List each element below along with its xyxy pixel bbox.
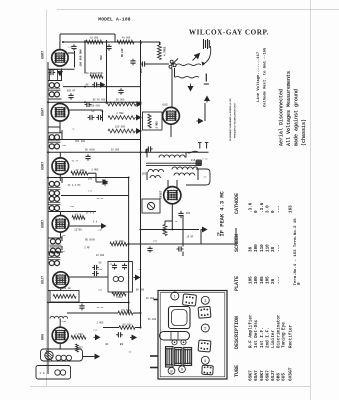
table cathode value col2 [254, 210, 259, 213]
svg-text:100: 100 [70, 205, 75, 208]
capacitor top rail bypass 2 [106, 44, 111, 51]
chassis IF can 10 [184, 348, 192, 366]
chassis IF can 9 [175, 348, 182, 366]
svg-text:PU 500: PU 500 [122, 323, 132, 326]
chassis box outer [158, 291, 227, 380]
svg-text:10 000: 10 000 [96, 254, 105, 257]
svg-text:4700: 4700 [116, 296, 123, 299]
tube V3 6SK7 1st IF [52, 158, 69, 175]
transformer T6 core [146, 163, 201, 165]
svg-text:250: 250 [98, 228, 103, 231]
resistor R6 22000 [71, 171, 88, 175]
svg-text:0: 0 [297, 282, 302, 285]
table plate value col1 [249, 276, 254, 284]
box 1meg [143, 112, 163, 130]
tube V2 6SA7 1st det-osc [51, 104, 69, 122]
label v 1megb [97, 321, 105, 324]
label v bg6000 [85, 148, 95, 151]
label B2 [79, 347, 83, 350]
wire v4 coil frame [48, 236, 62, 241]
svg-text:4.7MEG: 4.7MEG [163, 46, 166, 56]
chassis circle 3 [201, 296, 209, 304]
label 6SJ7 V5 [42, 276, 46, 284]
label pu500 [122, 323, 132, 326]
table screen value col4 [265, 244, 270, 252]
svg-text:00 000: 00 000 [136, 288, 145, 291]
capacitor C2 [92, 82, 99, 87]
svg-text:Cathode Rect. to Gnd.--165: Cathode Rect. to Gnd.--165 [263, 47, 268, 107]
resistor R2 4.7meg vertical [158, 45, 162, 60]
svg-text:MODEL A-108: MODEL A-108 [98, 17, 131, 23]
wire V1 grid row [48, 68, 75, 70]
tube V5 6SJ7 limiter [53, 272, 69, 288]
node arrow down [188, 84, 192, 91]
coil input v6 [50, 316, 68, 318]
svg-text:IF 4.3 MC: IF 4.3 MC [68, 184, 81, 187]
capacitor C18 [177, 246, 184, 251]
node dipole arrowhead 1 [202, 62, 206, 67]
label 6H6 V6 [42, 334, 46, 340]
wire y195 [61, 195, 129, 197]
wire y313 [67, 312, 141, 314]
IF transformer T3a [48, 181, 60, 195]
note IF peak [220, 190, 226, 236]
svg-text:---: --- [277, 244, 282, 252]
svg-text:100: 100 [88, 178, 93, 181]
svg-text:WILCOX-GAY CORP.: WILCOX-GAY CORP. [189, 29, 269, 37]
label if 43a [68, 184, 81, 187]
label v 50 [129, 351, 132, 354]
label 005c [142, 173, 147, 176]
wire v7 right up [196, 103, 205, 121]
chassis shaft 2 [150, 355, 158, 357]
svg-text:105: 105 [249, 276, 254, 284]
label 4700 [116, 296, 123, 299]
wire y229 left [141, 229, 173, 231]
capacitor C13 in box [122, 263, 127, 269]
table plate value col6 [277, 276, 282, 284]
resistor R15 1meg vertical [148, 114, 151, 128]
label 46 [85, 84, 89, 87]
capacitor extra y86 a [118, 88, 123, 95]
transformer T6 primary [159, 155, 185, 158]
table header SCREEN [234, 234, 240, 252]
capacitor C10 [92, 265, 99, 270]
wire rail drop [159, 42, 161, 45]
table description R-F Amplifier [249, 314, 254, 348]
label dn cap [121, 48, 124, 57]
transformer T6 sec B [172, 167, 198, 176]
wire T1 frame [48, 68, 62, 99]
label v rg40000 [93, 99, 106, 102]
label 6SK7 V4 [42, 220, 46, 228]
svg-text:B3: B3 [120, 343, 124, 346]
svg-text:RG 40 000: RG 40 000 [93, 99, 106, 102]
page bottom edge [30, 386, 310, 388]
label 6X5 V8 [160, 190, 163, 199]
label 22700 [74, 229, 82, 232]
wire T6 leads [147, 149, 198, 180]
chassis socket V1 [182, 294, 196, 306]
svg-text:47 0: 47 0 [75, 214, 82, 217]
resistor box R10 [50, 291, 79, 303]
svg-text:30 000: 30 000 [111, 148, 120, 151]
chassis dial pill [160, 332, 190, 341]
svg-text:Line Voltage-------117: Line Voltage-------117 [256, 51, 261, 102]
chassis shaft 1 [154, 299, 159, 301]
osc coil T2 [48, 135, 60, 149]
wire dipole drop [172, 68, 175, 104]
label v 470b [88, 189, 93, 192]
svg-text:005: 005 [142, 173, 147, 176]
table plate value col4 [265, 276, 270, 284]
svg-text:SCREEN: SCREEN [234, 234, 240, 252]
chassis socket V3 [198, 340, 211, 352]
note all voltages [286, 71, 292, 146]
label v 05mf [72, 160, 79, 163]
terminal T bar [205, 74, 207, 82]
table description Tuning Eye [282, 322, 287, 348]
wire y327 [103, 327, 141, 329]
wire y211 [48, 211, 96, 213]
table cathode value col3 [260, 202, 265, 213]
resistor R4 [108, 116, 135, 120]
svg-text:36: 36 [249, 246, 254, 252]
table cathode value col4 [265, 205, 270, 213]
wire V2 plate [69, 110, 103, 121]
svg-text:6SK7: 6SK7 [248, 370, 254, 381]
label 3 mf [84, 247, 90, 250]
node arrow R5 [136, 129, 141, 133]
svg-text:46: 46 [85, 84, 89, 87]
resistor R14 small [76, 344, 79, 352]
capacitor C3 top [130, 59, 135, 66]
coil T5 secondary [113, 276, 123, 281]
wire r16 link [165, 221, 172, 225]
label 05 mf [101, 110, 104, 113]
svg-text:6SA7: 6SA7 [42, 108, 46, 116]
label v 100c [98, 288, 103, 291]
label IF arrow [218, 232, 222, 236]
tube V6 6H6 discriminator [52, 327, 68, 343]
node arrow L2 out [93, 354, 99, 358]
capacitor C11 [92, 271, 99, 276]
note aerial disconnected [278, 89, 284, 146]
resistor top rail 2 [117, 40, 134, 44]
label 100 000b [115, 125, 126, 128]
table header DESCRIPTION [234, 316, 240, 349]
label 2 meg [116, 112, 124, 115]
wire v2 down [59, 121, 61, 133]
capacitor C14 [79, 304, 84, 311]
label 6U5 V7 [162, 104, 168, 107]
table cathode value col5 [271, 210, 276, 213]
svg-text:2 MEG: 2 MEG [116, 112, 124, 115]
table description Discriminator [277, 314, 282, 348]
resistor R5 [108, 129, 135, 133]
svg-text:110: 110 [265, 244, 270, 252]
note schematic diagram line1 [229, 98, 232, 141]
note made against ground [294, 89, 300, 146]
transformer enclosure [186, 169, 210, 185]
table cathode value col8 [289, 205, 294, 213]
svg-text:105: 105 [260, 276, 265, 284]
label v 20 [175, 220, 178, 223]
svg-text:250: 250 [62, 144, 67, 147]
label 4.7 MEG [163, 46, 166, 56]
wire bus x140 lower [140, 102, 142, 327]
resistor box V1 cathode [50, 70, 58, 81]
wire v7 bus join [145, 149, 147, 152]
svg-text:26: 26 [271, 278, 276, 284]
wire V1 right [68, 51, 74, 68]
switch S1 contacts [169, 59, 178, 69]
label v b1 [105, 343, 109, 346]
node arrow NE [193, 54, 200, 61]
label v 05mfc [97, 306, 104, 309]
node V1 cathode arrow [58, 71, 62, 76]
label v 10000b [96, 254, 105, 257]
svg-text:IF 4.3: IF 4.3 [86, 211, 95, 214]
label v 2meg [92, 169, 100, 172]
wire pl1 drop [140, 199, 142, 230]
resistor R13 7500 [71, 335, 86, 339]
label 500 mmf [100, 55, 103, 60]
table screen value col5 [271, 246, 276, 252]
wire bus x106 [106, 40, 108, 102]
svg-text:6SK7: 6SK7 [259, 370, 265, 381]
IF transformer T4b [48, 251, 60, 265]
svg-text:BO 5000: BO 5000 [85, 238, 95, 241]
wire x171 switch drop [171, 104, 173, 107]
svg-text:6.3V: 6.3V [202, 158, 208, 161]
label 100a [88, 178, 93, 181]
label 2 label [110, 263, 112, 266]
wire y252 stub [48, 251, 63, 253]
discriminator box T5 [108, 262, 133, 293]
table description Limiter [271, 330, 276, 348]
label coi 400 [75, 140, 86, 143]
label v 63v [202, 158, 208, 161]
label pri selector [84, 72, 102, 75]
label t bar2 [204, 83, 209, 85]
svg-text:22 000: 22 000 [114, 240, 124, 243]
wire V8 top leads [168, 180, 177, 188]
svg-text:1 %: 1 % [39, 372, 44, 375]
wire 152 bus [48, 151, 209, 153]
table tube name 6H6 [276, 373, 282, 381]
wire B+ top rail 2 [60, 34, 115, 42]
svg-text:---: --- [277, 276, 282, 284]
svg-text:650: 650 [98, 268, 103, 271]
svg-text:1 MEG: 1 MEG [156, 121, 159, 129]
label 6SA7 V2 [42, 108, 46, 116]
AC plug P1 [188, 143, 209, 153]
label rail value 1 [90, 37, 99, 40]
tube V8 6X5GT rectifier [164, 187, 181, 204]
table tube name 6SJ7 [270, 370, 276, 381]
label 7500 [75, 333, 83, 336]
table tube name 6SA7 [253, 370, 259, 381]
svg-text:6U5: 6U5 [281, 373, 287, 381]
capacitor C4 005 [140, 61, 147, 66]
chassis shaft 3 [150, 367, 158, 369]
fuse F1 [196, 160, 203, 167]
svg-text:CATHODE: CATHODE [234, 193, 240, 214]
svg-text:40 000: 40 000 [146, 297, 155, 300]
wire R2 top [154, 42, 159, 45]
svg-text:COI 400: COI 400 [75, 140, 86, 143]
label 005 mf [67, 90, 76, 93]
chassis circle 5a [201, 324, 209, 332]
wire t4 frames [48, 242, 62, 262]
svg-text:6SK7: 6SK7 [42, 220, 46, 228]
label 470 [75, 214, 82, 217]
phono pickup P1 [45, 351, 53, 362]
wire L2 out [83, 356, 94, 358]
label 01 mf [92, 110, 95, 113]
label 22000 [75, 169, 85, 172]
table tube name 6SK7 [259, 370, 265, 381]
note chassis [301, 119, 307, 146]
wire ant line [146, 63, 169, 65]
page top edge [57, 9, 339, 11]
capacitor C5 [85, 102, 92, 107]
label 47000 1w [58, 287, 71, 290]
wire B+ top rail [63, 41, 160, 43]
table screen value col2 [254, 244, 259, 252]
svg-text:8MF: 8MF [186, 212, 191, 215]
label v pa200 [148, 318, 157, 321]
svg-text:6SJ7: 6SJ7 [270, 370, 276, 381]
table screen value col3 [260, 244, 265, 252]
table plate value col2 [254, 276, 259, 284]
label 6SK7 V3 [42, 162, 46, 170]
capacitor C12 in box [112, 263, 117, 269]
wire v6 top [59, 319, 61, 328]
svg-text:220: 220 [93, 328, 98, 331]
svg-text:Rectifier: Rectifier [289, 324, 294, 348]
label v 220 [68, 46, 73, 49]
wire avc rail [48, 101, 141, 103]
label v bo5000 [85, 238, 95, 241]
antenna coil T1 [48, 83, 60, 97]
wire v3 bottom [59, 175, 61, 182]
label rail value 2 [122, 37, 131, 40]
label 6 8 [93, 221, 98, 224]
wire y265 stub [47, 258, 49, 260]
label B3 [120, 343, 124, 346]
svg-text:100 000: 100 000 [115, 125, 126, 128]
svg-text:47 000 1W: 47 000 1W [58, 287, 71, 290]
svg-text:10 000: 10 000 [90, 37, 99, 40]
wire v4 bottom [60, 232, 62, 238]
node arrow up right [205, 97, 209, 103]
table header PLATE [234, 276, 240, 291]
coil L3 [55, 370, 66, 375]
svg-text:2 MEG: 2 MEG [92, 169, 100, 172]
capacitor V1 cathode [49, 70, 56, 75]
chassis IF can 8 [166, 347, 174, 367]
coil box L3 [36, 366, 71, 380]
svg-text:220: 220 [68, 46, 73, 49]
chassis small socket b [181, 340, 186, 345]
chassis circle 1 [171, 292, 179, 300]
chassis socket V4 [202, 365, 213, 375]
wire y229 out [172, 229, 199, 231]
svg-text:Aerial Disconnected: Aerial Disconnected [278, 89, 284, 146]
svg-text:005: 005 [140, 68, 143, 73]
label v 650 [98, 268, 103, 271]
label r8 [114, 240, 124, 243]
title MODEL A-108 [98, 17, 131, 23]
wire V8 cathode [171, 204, 173, 230]
node arrow V4 [100, 224, 106, 228]
label 05b [99, 262, 102, 265]
chassis box inner [160, 293, 225, 377]
label v 30000 [111, 148, 120, 151]
wire V1 plate up [59, 42, 61, 50]
junction rail [140, 42, 142, 44]
resistor R10 47000 1W [53, 294, 76, 298]
svg-text:100: 100 [98, 288, 103, 291]
wire v5 to box [69, 276, 108, 278]
svg-text:105: 105 [265, 276, 270, 284]
svg-text:005 MF: 005 MF [67, 90, 76, 93]
table description 1st Det-Osc [254, 319, 259, 348]
svg-text:50 000: 50 000 [116, 99, 125, 102]
svg-text:6SA7: 6SA7 [253, 370, 259, 381]
wire V3 top [59, 152, 61, 158]
chassis circle 9 [179, 366, 186, 373]
wire y177 tick [95, 173, 97, 177]
wire screen bus v1 [84, 40, 86, 73]
resistor R9 4700 [112, 292, 126, 296]
svg-text:BG 6000: BG 6000 [85, 148, 95, 151]
svg-text:500: 500 [100, 55, 103, 60]
svg-text:16 MF: 16 MF [187, 236, 195, 239]
pilot lamp PL1 [142, 199, 160, 213]
svg-text:470: 470 [88, 189, 93, 192]
resistor top rail 1 [86, 40, 103, 44]
dipole lead 1 [176, 64, 201, 66]
svg-text:.3.6: .3.6 [260, 202, 265, 213]
wire y290 link [48, 290, 50, 292]
chassis speaker frame [169, 307, 191, 329]
svg-text:6X5GT: 6X5GT [160, 190, 163, 199]
svg-text:B1: B1 [105, 343, 109, 346]
capacitor C16 [146, 146, 153, 151]
label 6SK7 V1 [42, 51, 46, 59]
svg-text:made against ground: made against ground [294, 89, 300, 146]
svg-text:PS 500: PS 500 [121, 309, 131, 312]
label 005 [140, 68, 143, 73]
label L3 [39, 372, 44, 375]
label v 250b [98, 228, 103, 231]
svg-text:6SK7: 6SK7 [42, 51, 46, 59]
label v if43 [86, 211, 95, 214]
tube V7 6U5 tuning eye [163, 107, 180, 124]
wire T2 frame [48, 130, 62, 139]
node arrow V7 [197, 119, 203, 123]
table header TUBE [234, 365, 240, 377]
label v 5v [204, 176, 207, 179]
node arrow T5 out [134, 275, 140, 279]
wire v4 top [60, 212, 62, 216]
table description 1st I.F. [260, 327, 265, 348]
svg-text:330: 330 [62, 320, 67, 323]
svg-text:PA 200: PA 200 [148, 318, 157, 321]
